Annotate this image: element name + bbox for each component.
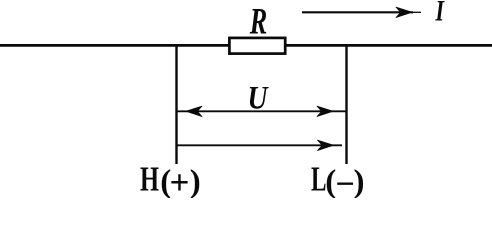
wire	[0, 44, 492, 47]
label L(-)	[311, 160, 365, 204]
svg-text:+: +	[170, 163, 190, 198]
voltage arrow U	[178, 106, 346, 116]
svg-text:R: R	[249, 2, 267, 43]
svg-text:): )	[190, 164, 201, 198]
polarity arrow	[178, 140, 343, 150]
current arrow	[302, 7, 421, 17]
label H(+)	[140, 160, 201, 203]
node H wire	[175, 46, 177, 165]
svg-text:H: H	[140, 160, 159, 199]
svg-text:L: L	[311, 160, 327, 199]
svg-text:U: U	[248, 81, 270, 117]
svg-text:): )	[354, 164, 365, 198]
svg-text:−: −	[336, 166, 355, 198]
svg-text:I: I	[435, 0, 445, 28]
resistor R1	[229, 38, 285, 54]
node L wire	[345, 46, 347, 165]
